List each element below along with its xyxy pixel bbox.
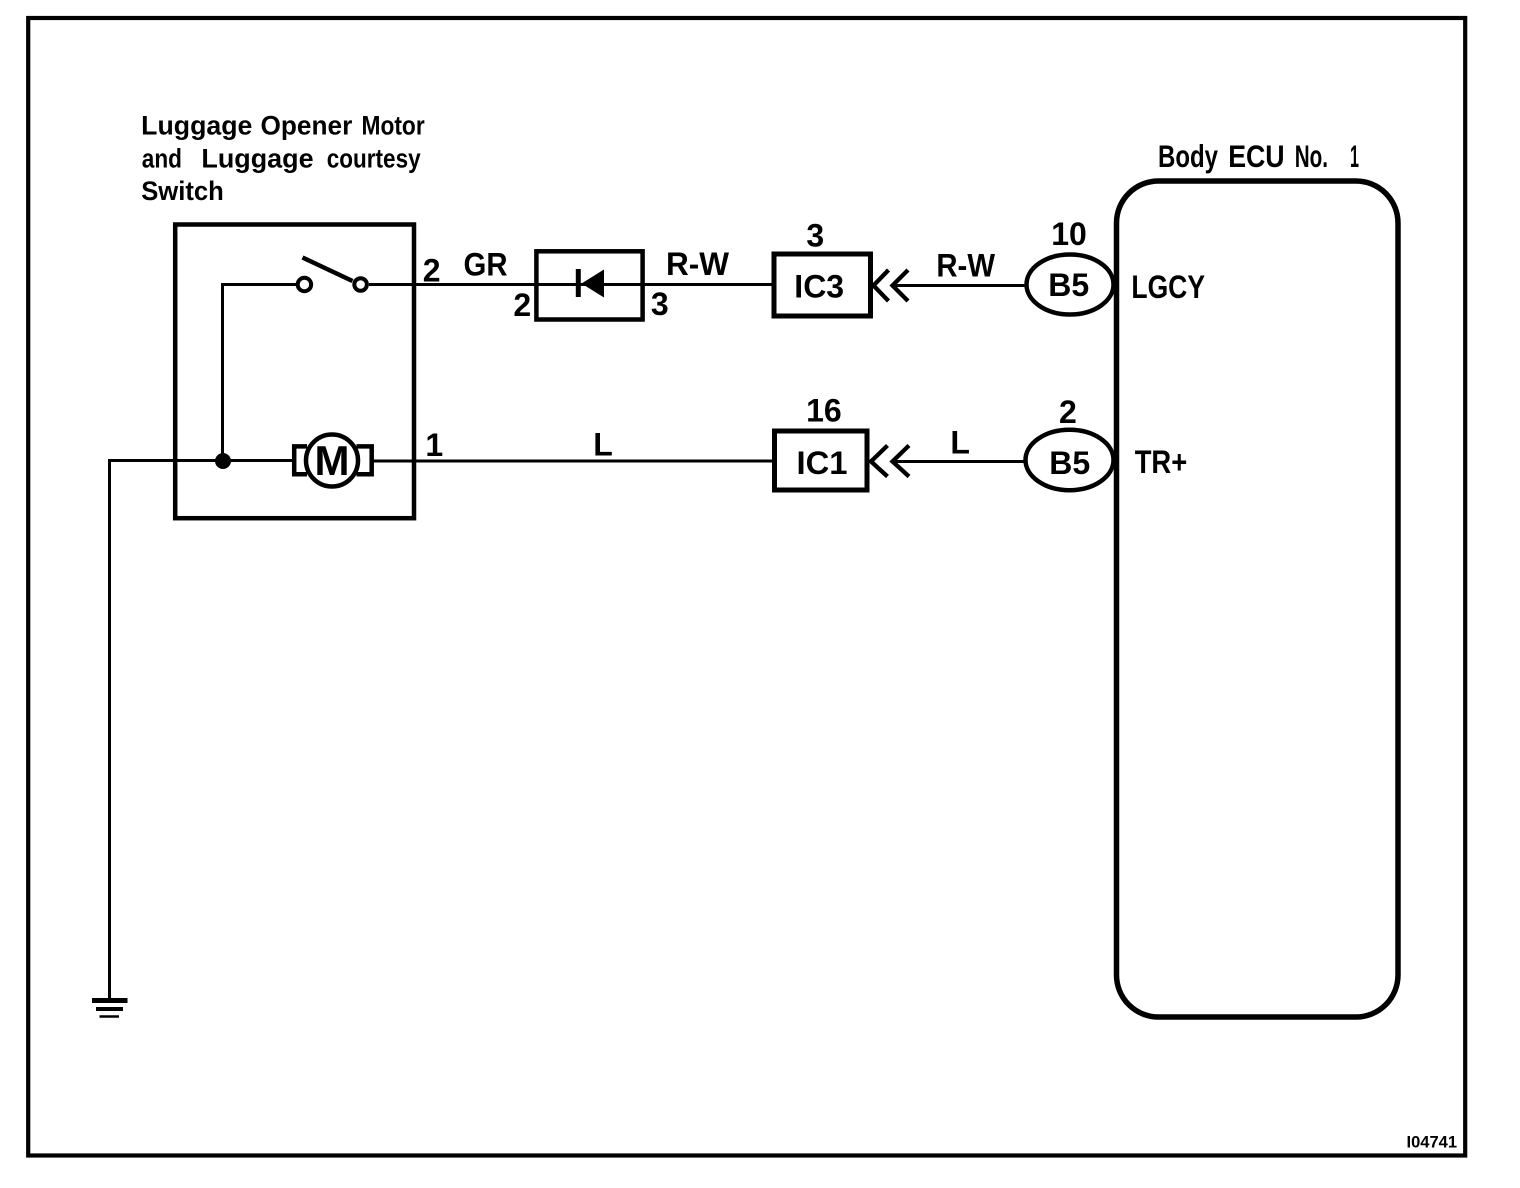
svg-text:IC3: IC3 xyxy=(794,269,844,305)
svg-text:2: 2 xyxy=(423,253,441,289)
svg-text:L: L xyxy=(950,424,970,460)
svg-text:3: 3 xyxy=(806,217,824,253)
svg-text:Switch: Switch xyxy=(141,176,224,206)
svg-text:3: 3 xyxy=(651,286,669,322)
svg-text:B5: B5 xyxy=(1049,445,1090,481)
svg-text:2: 2 xyxy=(1059,394,1077,430)
svg-text:16: 16 xyxy=(806,393,842,429)
svg-text:10: 10 xyxy=(1051,216,1087,252)
svg-text:Opener: Opener xyxy=(261,111,353,141)
svg-text:L: L xyxy=(593,427,613,463)
svg-text:GR: GR xyxy=(464,247,508,283)
svg-text:R-W: R-W xyxy=(936,248,995,284)
svg-text:and: and xyxy=(142,144,182,174)
svg-text:IC1: IC1 xyxy=(797,445,848,481)
svg-text:LGCY: LGCY xyxy=(1131,269,1205,305)
svg-text:1: 1 xyxy=(1350,138,1359,174)
svg-text:Luggage: Luggage xyxy=(201,144,313,174)
svg-text:Body: Body xyxy=(1158,138,1218,174)
svg-text:Luggage: Luggage xyxy=(141,111,252,141)
svg-text:B5: B5 xyxy=(1048,267,1089,303)
svg-text:M: M xyxy=(315,437,350,484)
svg-text:No.: No. xyxy=(1295,138,1328,174)
svg-text:I04741: I04741 xyxy=(1407,1134,1457,1152)
svg-text:2: 2 xyxy=(513,287,531,323)
svg-text:R-W: R-W xyxy=(666,246,730,282)
svg-text:Motor: Motor xyxy=(362,111,425,141)
svg-text:courtesy: courtesy xyxy=(327,144,421,174)
svg-text:1: 1 xyxy=(425,427,443,463)
svg-text:TR+: TR+ xyxy=(1135,444,1188,480)
svg-text:ECU: ECU xyxy=(1228,138,1284,174)
